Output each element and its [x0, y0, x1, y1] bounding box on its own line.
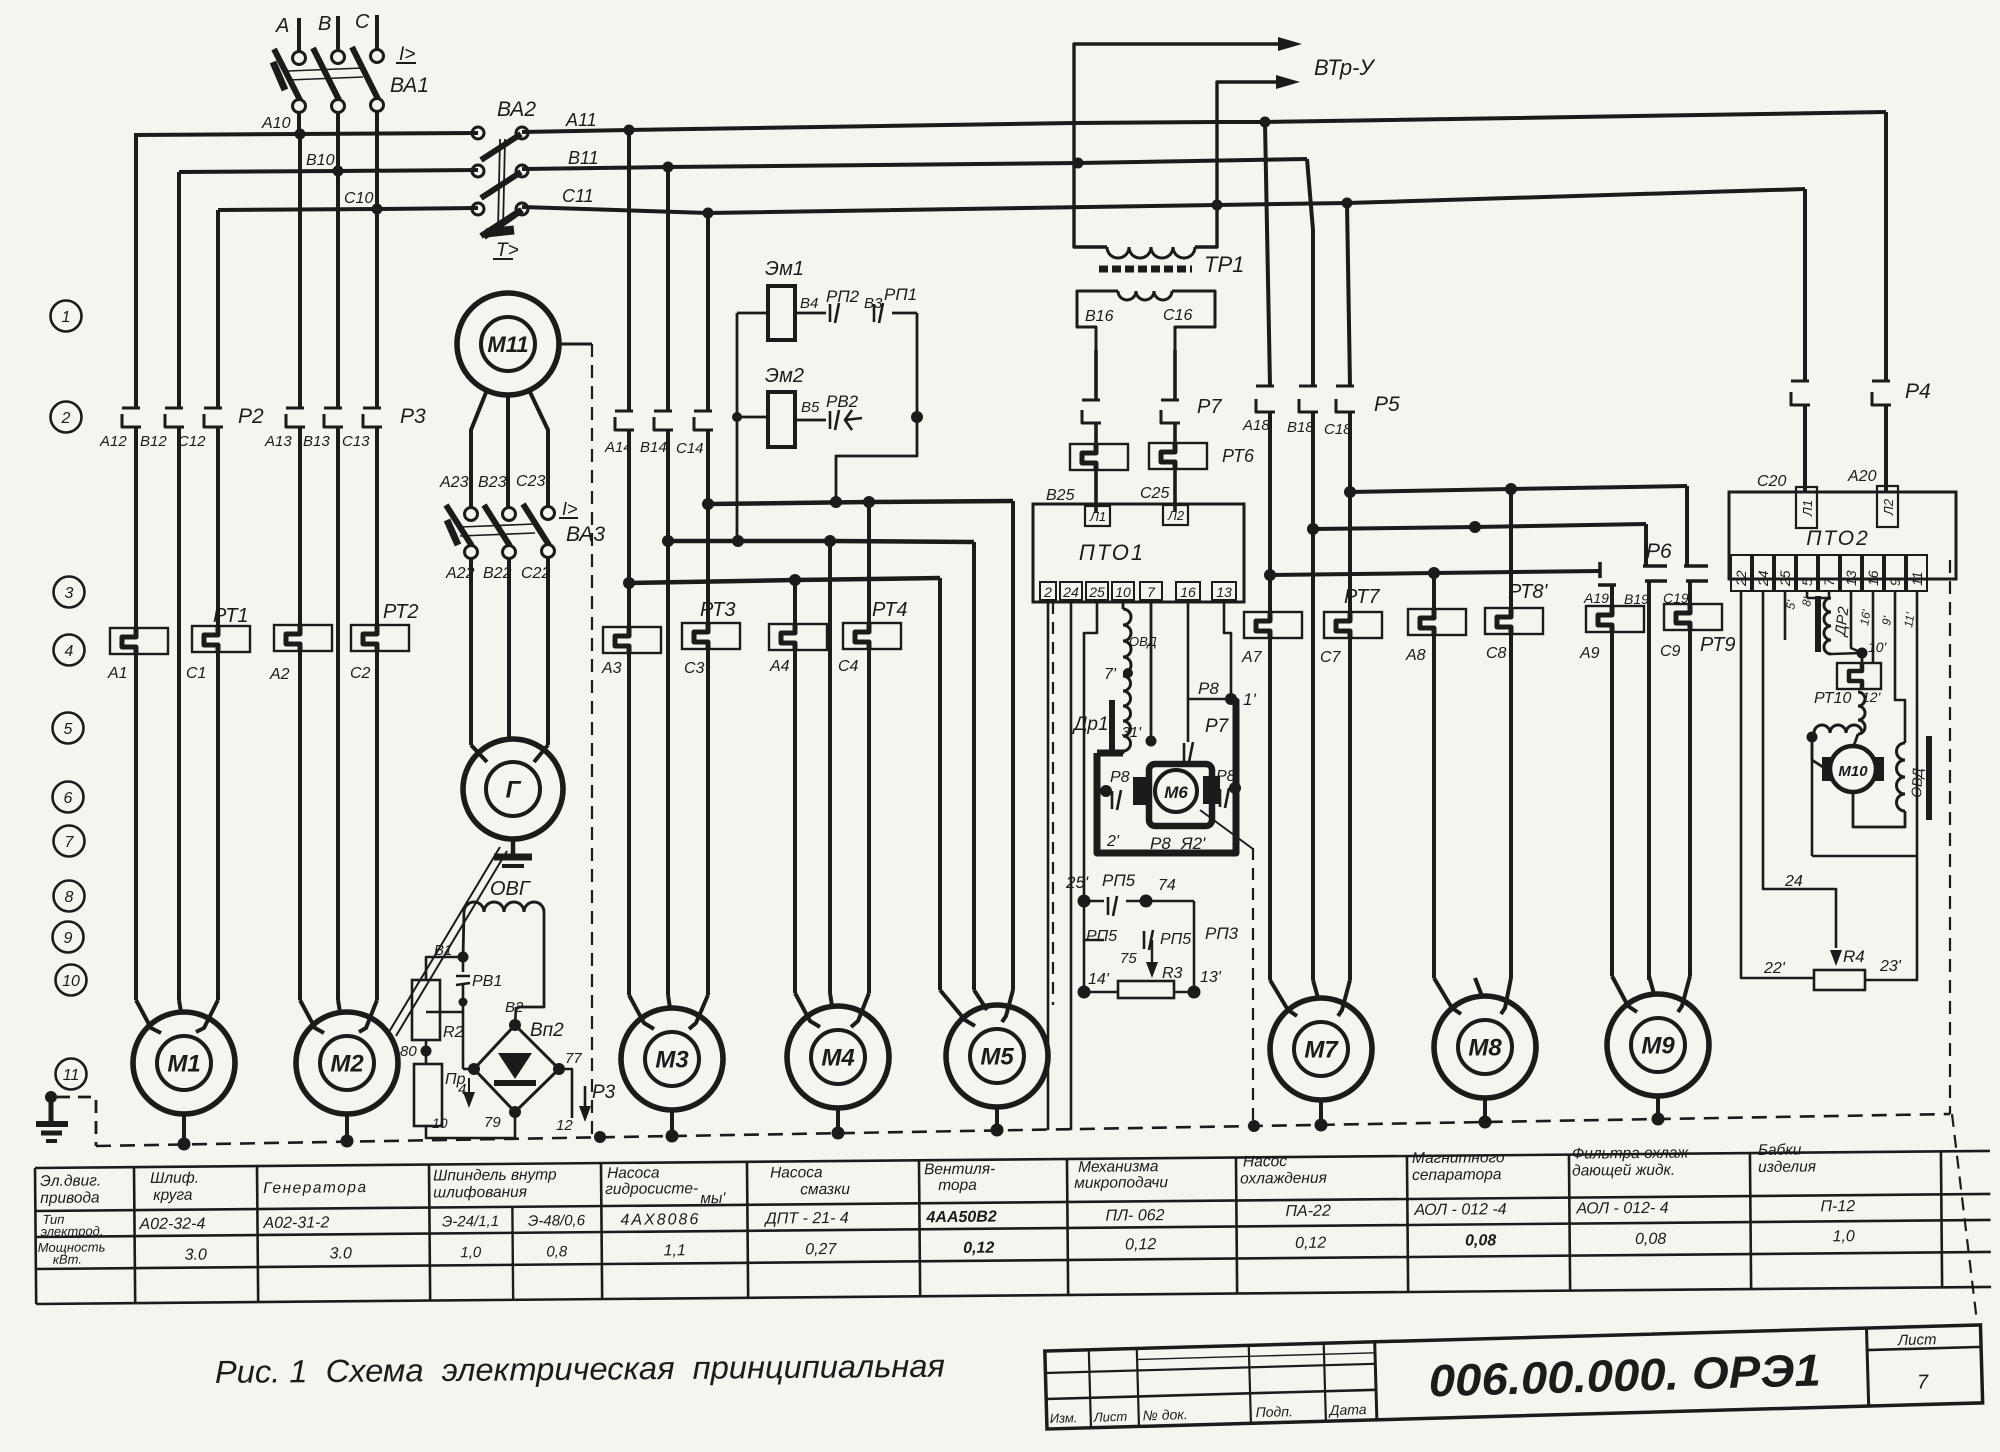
svg-text:М10: М10 — [1838, 763, 1868, 780]
motor M2 — [296, 1012, 398, 1114]
dashed boundary right — [1252, 848, 1254, 1126]
svg-text:А4: А4 — [769, 658, 790, 675]
node marker 6 — [53, 782, 84, 813]
relay RT1 element A1 — [110, 628, 168, 654]
PTO2 terminal 25 — [1775, 555, 1795, 591]
svg-text:Бабки: Бабки — [1758, 1142, 1802, 1159]
svg-text:0,08: 0,08 — [1465, 1232, 1496, 1249]
svg-text:А10: А10 — [261, 115, 291, 132]
contactor P6 pole B — [1644, 524, 1648, 566]
svg-text:С16: С16 — [1163, 307, 1192, 324]
junction — [663, 162, 674, 173]
wire C10 down to bus — [375, 111, 379, 211]
PTO1 terminal 16 — [1176, 582, 1200, 600]
svg-text:АОЛ - 012- 4: АОЛ - 012- 4 — [1575, 1200, 1668, 1218]
svg-text:7: 7 — [1147, 584, 1156, 600]
M4 to bottom bus — [836, 1108, 840, 1133]
wire B14 down — [666, 430, 670, 995]
svg-text:Магнитного: Магнитного — [1412, 1149, 1505, 1167]
resistor R3 — [1118, 981, 1174, 998]
contactor P3 pole A13 — [298, 134, 302, 408]
svg-text:10: 10 — [62, 973, 80, 990]
coil under RT10 — [1858, 692, 1865, 734]
resistor R2 — [426, 957, 463, 980]
motor M10 — [1822, 757, 1835, 781]
dashed drop to title block — [1952, 1114, 1977, 1322]
svg-text:ПА-22: ПА-22 — [1285, 1203, 1331, 1220]
contactor P2 pole B12 — [177, 172, 181, 408]
svg-text:16: 16 — [1865, 570, 1881, 586]
svg-text:С3: С3 — [684, 660, 705, 677]
svg-text:Лист: Лист — [1092, 1409, 1127, 1425]
relay RT8 element A8 — [1432, 573, 1436, 609]
svg-text:1,0: 1,0 — [460, 1244, 482, 1261]
svg-text:А2: А2 — [269, 666, 290, 683]
wire from terminal 7 to M6 loop — [1150, 600, 1153, 741]
block PTO2 — [1729, 492, 1956, 579]
svg-text:С23: С23 — [516, 473, 545, 490]
PTO2 terminal 16 — [1863, 555, 1883, 591]
relay RT3 element C3 — [706, 430, 710, 623]
svg-text:РВ1: РВ1 — [472, 973, 502, 990]
circuit breaker BA3 — [465, 508, 478, 521]
svg-text:А02-31-2: А02-31-2 — [262, 1214, 329, 1232]
relay RT6 heater left — [1070, 444, 1128, 470]
relay RT4 element C4 — [843, 623, 901, 649]
relay RT9 element C9 — [1664, 604, 1722, 630]
TR1 core — [1099, 266, 1192, 273]
svg-text:0,12: 0,12 — [1295, 1235, 1326, 1252]
contact RP1 — [873, 304, 876, 322]
PTO2 terminal 7 — [1819, 555, 1839, 591]
svg-text:сепаратора: сепаратора — [1412, 1166, 1502, 1184]
svg-text:С7: С7 — [1320, 649, 1342, 666]
svg-text:Др1: Др1 — [1072, 714, 1109, 735]
wires into M2 — [298, 651, 302, 1000]
svg-text:дающей жидк.: дающей жидк. — [1572, 1162, 1675, 1180]
node marker 5 — [53, 713, 84, 744]
svg-text:С9: С9 — [1660, 643, 1681, 660]
wire M10 loop to R4 right — [1865, 700, 1917, 980]
svg-text:2: 2 — [61, 410, 71, 427]
svg-text:7': 7' — [1104, 666, 1117, 683]
svg-text:Вп2: Вп2 — [530, 1020, 564, 1041]
contact RP5 lower — [1084, 939, 1104, 941]
transformer TR1 primary — [1074, 163, 1107, 247]
svg-text:микроподачи: микроподачи — [1074, 1174, 1168, 1192]
svg-text:24: 24 — [1784, 873, 1803, 890]
svg-text:В19: В19 — [1624, 591, 1649, 607]
svg-text:0,12: 0,12 — [963, 1240, 994, 1257]
wire from terminal 2 — [1047, 600, 1050, 1130]
choke Dr1 — [1123, 676, 1131, 751]
generator G — [463, 739, 563, 839]
svg-text:РП5: РП5 — [1160, 931, 1191, 948]
relay RT6 heater right — [1149, 443, 1207, 469]
node marker 10 — [56, 965, 87, 996]
svg-text:Р2: Р2 — [238, 405, 264, 428]
svg-text:А12: А12 — [99, 433, 127, 450]
svg-text:А18: А18 — [1242, 417, 1270, 434]
wire from terminal 24 — [1070, 600, 1073, 1130]
wire B13 down — [336, 427, 340, 1000]
svg-text:3.0: 3.0 — [330, 1245, 352, 1262]
svg-text:ВА1: ВА1 — [390, 74, 429, 97]
svg-text:Л1: Л1 — [1089, 509, 1106, 524]
svg-text:25: 25 — [1088, 584, 1105, 600]
M3 to bottom bus — [670, 1110, 674, 1136]
svg-text:М6: М6 — [1164, 783, 1188, 802]
svg-text:Л1: Л1 — [1800, 500, 1815, 517]
svg-text:Р6: Р6 — [1646, 540, 1672, 563]
svg-text:0,8: 0,8 — [546, 1243, 568, 1260]
svg-text:Насос: Насос — [1243, 1153, 1287, 1170]
svg-text:ВА3: ВА3 — [566, 523, 605, 546]
wire B10 down to bus — [336, 112, 340, 172]
svg-text:Э-24/1,1: Э-24/1,1 — [442, 1213, 499, 1230]
svg-text:А20: А20 — [1847, 468, 1877, 485]
node and coil left of M10 — [1807, 732, 1818, 743]
svg-text:ДПТ - 21- 4: ДПТ - 21- 4 — [763, 1210, 849, 1228]
svg-text:Р8: Р8 — [1150, 834, 1171, 853]
svg-text:В5: В5 — [801, 399, 820, 416]
wire 16 down — [1872, 591, 1875, 663]
bus B-phase to M4/M5 — [668, 541, 974, 542]
svg-text:4: 4 — [65, 643, 74, 660]
svg-text:С11: С11 — [562, 186, 594, 206]
svg-text:А11: А11 — [565, 110, 597, 130]
svg-text:Шпиндель внутр: Шпиндель внутр — [433, 1166, 557, 1184]
wire 25'-14' — [1083, 901, 1086, 992]
node marker 1 — [51, 301, 82, 332]
PTO2 terminal 9 — [1885, 555, 1905, 591]
contact pole B14 — [666, 167, 670, 411]
motor M1 — [133, 1012, 235, 1114]
svg-text:13: 13 — [1843, 570, 1859, 586]
PTO1 terminal 25 — [1086, 582, 1108, 600]
relay RT4 element A4 — [769, 624, 827, 650]
svg-text:Рис. 1 Схема электрическая: Рис. 1 Схема электрическая принципиальна… — [215, 1348, 945, 1390]
fuse Pr4 — [414, 1064, 442, 1126]
svg-text:АОЛ - 012 -4: АОЛ - 012 -4 — [1413, 1201, 1506, 1219]
contact P7 above M6 — [1187, 699, 1190, 742]
block PTO1 — [1033, 504, 1244, 602]
svg-text:А8: А8 — [1405, 647, 1426, 664]
contact RV1 — [462, 957, 465, 972]
node 14' — [1078, 986, 1091, 999]
svg-text:0,27: 0,27 — [805, 1241, 837, 1258]
svg-text:В16: В16 — [1085, 308, 1114, 325]
title block — [1045, 1325, 1983, 1429]
svg-text:R4: R4 — [1843, 947, 1865, 966]
bus C-phase to M4/M5 — [708, 501, 1013, 504]
wires into M4 — [793, 650, 797, 993]
motor data table — [35, 1140, 1991, 1304]
wire A10 down to bus — [297, 112, 301, 135]
svg-text:Л2: Л2 — [1881, 498, 1896, 516]
motor M6 armature loop — [1097, 700, 1236, 853]
PTO2 terminal 11 — [1907, 555, 1927, 591]
junction — [703, 208, 714, 219]
relay RT7 element A7 — [1244, 612, 1302, 638]
PTO1 terminal 13 — [1212, 582, 1236, 600]
svg-text:В18: В18 — [1287, 419, 1314, 436]
svg-text:М7: М7 — [1304, 1037, 1339, 1064]
motor M9 — [1607, 994, 1709, 1096]
relay RT1 element C1 — [216, 427, 220, 626]
contact P8 left of M6 — [1100, 785, 1112, 797]
node 74 — [1140, 895, 1153, 908]
svg-text:Г: Г — [506, 777, 522, 804]
svg-text:74: 74 — [1158, 877, 1176, 894]
svg-text:ОВГ: ОВГ — [490, 878, 532, 900]
PTO1 terminal 10 — [1112, 582, 1134, 600]
rectifier bridge Vp2 — [474, 1025, 559, 1112]
svg-text:14': 14' — [1088, 971, 1110, 988]
wire node to lower rail — [1811, 744, 1814, 856]
svg-text:С20: С20 — [1757, 473, 1786, 490]
wire A18 distribution — [1268, 412, 1272, 612]
circuit breaker BA1 — [293, 52, 306, 65]
svg-text:Р7: Р7 — [1205, 716, 1230, 737]
svg-text:Р8: Р8 — [1216, 768, 1236, 785]
motor M11 — [457, 293, 559, 395]
svg-text:Лист: Лист — [1897, 1331, 1937, 1349]
wire 11 down right side — [1916, 591, 1919, 700]
svg-text:ВА2: ВА2 — [497, 98, 536, 121]
junction — [1260, 117, 1271, 128]
node 7' — [1123, 668, 1133, 678]
svg-text:11: 11 — [63, 1067, 80, 1084]
M1 to bottom bus — [182, 1114, 186, 1145]
svg-text:круга: круга — [153, 1187, 193, 1204]
svg-text:R3: R3 — [1162, 965, 1183, 982]
svg-text:22': 22' — [1763, 960, 1786, 977]
wire B16 — [1094, 350, 1098, 400]
contactor P2 pole A12 — [134, 135, 138, 408]
svg-text:РТ1: РТ1 — [213, 605, 249, 627]
svg-text:Р8: Р8 — [1198, 679, 1219, 698]
node marker 7 — [54, 826, 85, 857]
svg-text:РП3: РП3 — [1205, 924, 1239, 943]
svg-text:ОВД: ОВД — [1129, 634, 1157, 649]
node 10' — [1831, 653, 1862, 654]
svg-text:ПТО2: ПТО2 — [1806, 527, 1870, 550]
svg-text:С4: С4 — [838, 658, 859, 675]
wire bridge left — [463, 1068, 474, 1071]
wire C5 — [1011, 501, 1015, 990]
dashed boundary right — [1949, 560, 1951, 1114]
svg-text:тора: тора — [938, 1177, 977, 1194]
svg-text:В4: В4 — [800, 295, 818, 312]
svg-text:10': 10' — [1868, 639, 1888, 655]
node marker 8 — [54, 881, 85, 912]
svg-text:охлаждения: охлаждения — [1240, 1170, 1327, 1188]
svg-text:ПТО1: ПТО1 — [1079, 540, 1145, 565]
contact RP2 — [829, 304, 832, 322]
svg-text:А13: А13 — [264, 433, 292, 450]
svg-text:3: 3 — [65, 585, 74, 602]
node 13' — [1188, 986, 1201, 999]
svg-text:РТ4: РТ4 — [872, 599, 908, 621]
svg-text:Насоса: Насоса — [607, 1165, 660, 1182]
dashed boundary M11 column — [591, 344, 593, 1138]
wire C4 from bus — [867, 502, 871, 623]
contact RV2 — [829, 411, 832, 429]
wire B12 down — [177, 427, 181, 1000]
svg-text:22: 22 — [1733, 570, 1749, 587]
PTO2 terminal 24 — [1753, 555, 1773, 591]
svg-text:24: 24 — [1755, 570, 1771, 587]
svg-text:М11: М11 — [487, 332, 528, 357]
svg-text:В11: В11 — [568, 148, 599, 168]
wire bridge right to node 12 — [559, 1069, 572, 1118]
svg-text:75: 75 — [1120, 950, 1137, 967]
wires into M1 — [134, 654, 138, 1000]
svg-text:9: 9 — [1887, 578, 1903, 586]
PTO2 terminal 22 — [1731, 555, 1751, 591]
svg-text:В14: В14 — [640, 439, 667, 456]
svg-text:№ док.: № док. — [1142, 1406, 1188, 1423]
wire Em drop to C-phase bus — [836, 417, 917, 502]
svg-text:2': 2' — [1106, 833, 1120, 850]
svg-text:Эл.двиг.: Эл.двиг. — [40, 1172, 101, 1190]
svg-text:В12: В12 — [140, 433, 167, 450]
wires into M9 — [1610, 632, 1614, 976]
wires into M8 — [1432, 635, 1436, 978]
node marker 9 — [53, 922, 84, 953]
svg-text:Э-48/0,6: Э-48/0,6 — [528, 1212, 586, 1230]
svg-text:ВТр-У: ВТр-У — [1314, 55, 1375, 80]
relay RT7 element C7 — [1324, 612, 1382, 638]
svg-text:Т>: Т> — [496, 240, 519, 261]
svg-text:16': 16' — [1857, 608, 1874, 627]
svg-text:М4: М4 — [821, 1045, 854, 1072]
svg-text:Дата: Дата — [1327, 1401, 1367, 1418]
svg-text:0,12: 0,12 — [1125, 1236, 1156, 1253]
svg-text:ТР1: ТР1 — [1204, 252, 1244, 277]
node marker 11 — [56, 1059, 87, 1090]
svg-text:1,1: 1,1 — [664, 1242, 686, 1259]
svg-text:А23: А23 — [439, 474, 469, 491]
svg-text:В23: В23 — [478, 474, 507, 491]
svg-text:79: 79 — [484, 1114, 501, 1131]
svg-text:П-12: П-12 — [1820, 1198, 1855, 1215]
svg-text:С25: С25 — [1140, 485, 1169, 502]
wire to VTrU arrow 1 — [1074, 44, 1280, 163]
wire 22 down to 22' — [1741, 591, 1814, 978]
wire 24 down to R4 arrow — [1763, 591, 1836, 948]
motor M4 — [787, 1006, 889, 1108]
wire 13 to RT10 — [1851, 591, 1862, 653]
node 31' — [1146, 736, 1157, 747]
svg-text:М9: М9 — [1641, 1033, 1675, 1060]
PTO1 terminal 7 — [1140, 582, 1162, 600]
junction — [1073, 158, 1084, 169]
svg-text:80: 80 — [400, 1043, 417, 1060]
svg-text:смазки: смазки — [800, 1181, 850, 1198]
dashed common bus — [96, 1114, 1950, 1146]
contactor P5 pole B18 — [1307, 159, 1313, 386]
wire from terminal 25 to node 25' — [1084, 600, 1097, 901]
wire A5 — [938, 578, 942, 990]
svg-text:М5: М5 — [980, 1044, 1014, 1071]
wire 7 down — [1828, 591, 1831, 598]
wire A14 down — [627, 430, 631, 627]
svg-text:А1: А1 — [107, 665, 128, 682]
wire C16 — [1173, 350, 1177, 400]
PTO2 terminal 5 — [1797, 555, 1817, 591]
tie line to dashed boundary — [1200, 810, 1253, 849]
svg-text:3.0: 3.0 — [185, 1247, 207, 1264]
M5 to bottom bus — [995, 1107, 999, 1131]
wire M11 to dashed net — [559, 343, 592, 346]
wire Em right leg — [916, 313, 919, 417]
M6 inner loop — [1149, 764, 1212, 826]
contact RP5 — [1107, 897, 1110, 915]
node 25' — [1078, 895, 1091, 908]
motor M7 — [1270, 998, 1372, 1100]
svg-text:гидросисте-: гидросисте- — [605, 1180, 698, 1198]
bus A-phase to M4/M5 — [629, 578, 940, 583]
winding OVD — [1122, 600, 1125, 609]
contact P7 on C16 — [1161, 399, 1179, 402]
relay RT9 element A9 — [1586, 606, 1644, 632]
svg-text:С1: С1 — [186, 665, 206, 682]
svg-text:привода: привода — [40, 1189, 100, 1207]
svg-text:С14: С14 — [676, 440, 704, 457]
junction — [333, 166, 344, 177]
contactor P2 pole C12 — [216, 210, 220, 408]
svg-text:1,0: 1,0 — [1832, 1228, 1854, 1245]
svg-text:Р8: Р8 — [1110, 769, 1130, 786]
svg-text:ПЛ- 062: ПЛ- 062 — [1105, 1207, 1164, 1225]
svg-text:РП5: РП5 — [1086, 928, 1117, 945]
svg-text:С12: С12 — [178, 433, 206, 450]
svg-text:изделия: изделия — [1758, 1158, 1816, 1176]
svg-text:5: 5 — [1799, 578, 1815, 586]
svg-text:Насоса: Насоса — [770, 1164, 823, 1181]
shaft coupling M2-G — [389, 847, 500, 1032]
svg-text:7: 7 — [1821, 577, 1837, 586]
svg-text:Эм2: Эм2 — [765, 365, 804, 387]
svg-text:В2: В2 — [505, 999, 524, 1016]
motor M5 — [946, 1005, 1048, 1107]
svg-text:6: 6 — [64, 790, 73, 807]
contact pole C14 — [706, 213, 710, 411]
motor M3 — [621, 1008, 723, 1110]
svg-text:С18: С18 — [1324, 421, 1352, 438]
svg-text:Р5: Р5 — [1374, 393, 1400, 416]
contactor P6 pole A — [1598, 562, 1602, 578]
wires into M3 — [627, 653, 631, 995]
wire 74-13' — [1193, 901, 1196, 992]
PTO1 terminal 24 — [1060, 582, 1082, 600]
wire V2 to bridge — [515, 1007, 516, 1025]
svg-text:А19: А19 — [1583, 590, 1609, 606]
svg-text:РП1: РП1 — [884, 285, 917, 304]
svg-text:РТ7: РТ7 — [1344, 586, 1380, 608]
svg-text:I>: I> — [399, 44, 415, 65]
svg-text:В13: В13 — [303, 433, 330, 450]
wire A13 to RT2 — [298, 427, 302, 625]
wire C25 — [1173, 469, 1177, 511]
svg-text:М1: М1 — [167, 1051, 200, 1078]
svg-text:25': 25' — [1065, 873, 1089, 892]
node marker 2 — [51, 402, 82, 433]
svg-text:А02-32-4: А02-32-4 — [138, 1216, 205, 1234]
contactor P3 pole C13 — [375, 209, 379, 408]
